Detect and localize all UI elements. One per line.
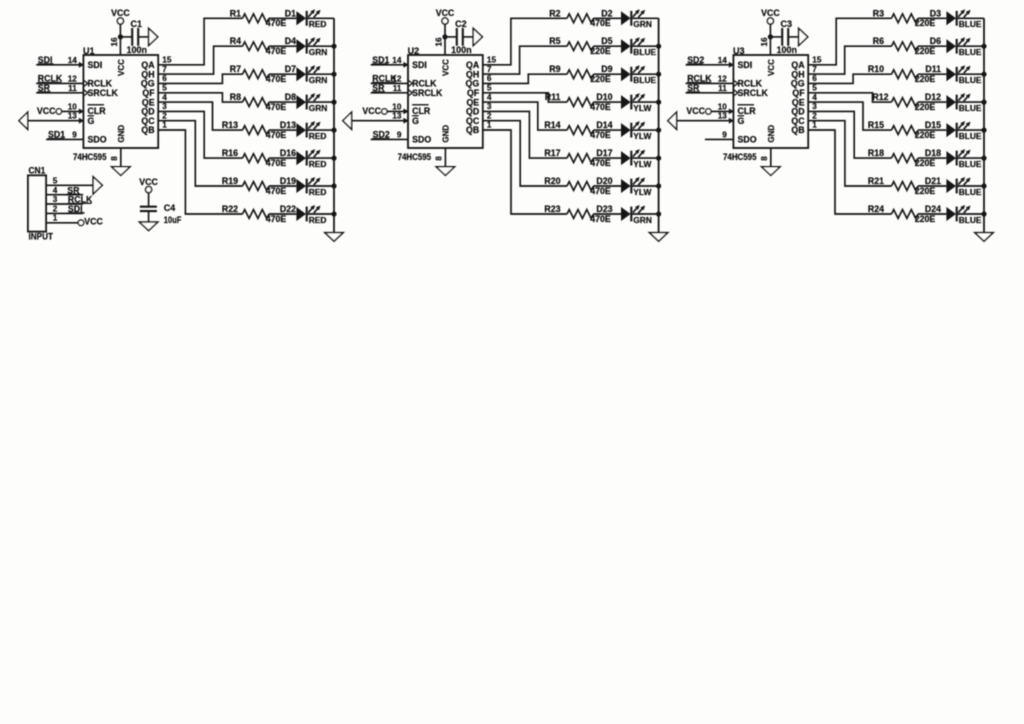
wire R2 to D2: [594, 17, 622, 19]
svg-text:100n: 100n: [451, 45, 472, 55]
wire D9 cathode to GND bus: [631, 73, 658, 75]
svg-text:470E: 470E: [266, 186, 287, 196]
svg-text:D1: D1: [285, 8, 296, 18]
wire R17 to D17: [594, 157, 622, 159]
wire R21 to D21: [918, 185, 946, 187]
svg-text:470E: 470E: [266, 214, 287, 224]
junction on GND bus: [981, 100, 986, 105]
wire RCLK to U1 pin 12: [36, 82, 83, 84]
svg-text:INPUT: INPUT: [29, 232, 54, 242]
wire R20 to D20: [594, 185, 622, 187]
svg-text:R20: R20: [544, 176, 560, 186]
svg-text:C1: C1: [131, 19, 143, 29]
resistor R16 470E: [222, 148, 287, 168]
svg-text:1: 1: [53, 214, 58, 223]
svg-text:220E: 220E: [915, 158, 936, 168]
svg-text:R19: R19: [222, 176, 238, 186]
wire R11 to D10: [594, 101, 622, 103]
wire U2 pin QG to R9: [483, 74, 567, 83]
wire D18 cathode to GND bus: [957, 157, 984, 159]
wire R5 to D5: [594, 45, 622, 47]
junction on GND bus: [981, 183, 986, 188]
resistor R19 470E: [222, 176, 287, 196]
wire R16 to D16: [269, 157, 296, 159]
wire pin 8 GND of U1: [120, 148, 122, 167]
svg-text:D4: D4: [285, 36, 296, 46]
svg-text:470E: 470E: [266, 74, 287, 84]
wire U3 pin QH to R6: [808, 46, 891, 74]
wire R12 to D12: [918, 101, 946, 103]
svg-text:R12: R12: [872, 92, 888, 102]
svg-text:12: 12: [68, 74, 78, 83]
svg-text:RED: RED: [309, 215, 327, 225]
svg-text:VCC: VCC: [442, 59, 451, 76]
capacitor C2 100n: [445, 19, 473, 55]
junction on GND bus: [656, 100, 661, 105]
ground symbol at bottom of LED bus 1: [325, 233, 343, 242]
svg-text:R1: R1: [230, 8, 241, 18]
LED D7 GRN: [285, 64, 328, 85]
wire SDO pin 9 of U1: [46, 138, 83, 140]
wire D10 cathode to GND bus: [631, 101, 658, 103]
svg-text:2: 2: [53, 205, 58, 214]
wire R7 to D7: [269, 73, 296, 75]
svg-text:74HC595: 74HC595: [398, 152, 432, 162]
svg-text:GRN: GRN: [309, 103, 328, 113]
svg-text:D10: D10: [596, 92, 612, 102]
svg-text:11: 11: [393, 84, 402, 93]
svg-text:R16: R16: [222, 148, 238, 158]
net label SR (pin 11): [38, 83, 51, 93]
resistor R5 220E: [549, 36, 611, 56]
svg-text:3: 3: [162, 102, 167, 111]
svg-text:YLW: YLW: [633, 103, 651, 113]
svg-text:R2: R2: [549, 8, 560, 18]
junction on GND bus: [331, 128, 336, 133]
VCC net on CLR pin 10: [686, 106, 733, 116]
svg-text:U2: U2: [408, 46, 420, 56]
wire U3 pin QE to R15: [808, 102, 891, 130]
svg-text:D19: D19: [280, 176, 296, 186]
svg-text:SDO: SDO: [412, 135, 431, 145]
LED D10 YLW: [596, 92, 651, 113]
wire U3 pin QB to R24: [808, 130, 891, 214]
svg-text:R15: R15: [868, 120, 884, 130]
CN1 pin 1 wire to VCC: [46, 214, 103, 227]
wire U1 pin QG to R7: [158, 74, 242, 83]
ground symbol under U1: [112, 167, 130, 176]
svg-text:BLUE: BLUE: [959, 19, 982, 29]
wire R24 to D24: [918, 213, 946, 215]
wire R23 to D23: [594, 213, 622, 215]
CN1 pin 3 wire, net RCLK: [46, 195, 93, 205]
wire D2 cathode to GND bus: [631, 17, 658, 19]
resistor R20 470E: [544, 176, 611, 196]
resistor R1 470E: [230, 8, 287, 28]
LED D11 BLUE: [925, 64, 982, 85]
LED D1 RED: [285, 8, 327, 29]
LED D6 BLUE: [930, 36, 982, 57]
svg-text:9: 9: [397, 130, 402, 139]
svg-text:1: 1: [487, 121, 492, 130]
junction on GND bus: [331, 100, 336, 105]
wire U3 pin QC to R21: [808, 121, 891, 186]
svg-text:GRN: GRN: [309, 47, 328, 57]
svg-text:BLUE: BLUE: [959, 75, 982, 85]
junction VCC node: [442, 34, 447, 39]
junction on GND bus: [981, 211, 986, 216]
resistor R17 470E: [544, 148, 611, 168]
svg-text:D3: D3: [930, 8, 941, 18]
wire R8 to D8: [269, 101, 296, 103]
wire VCC to pin 16 of U3: [769, 24, 771, 55]
svg-text:R17: R17: [544, 148, 560, 158]
resistor R13 470E: [222, 120, 287, 140]
LED D24 BLUE: [925, 204, 982, 225]
LED D16 RED: [280, 148, 327, 169]
wire R1 to D1: [269, 17, 296, 19]
wire D1 cathode to GND bus: [307, 17, 334, 19]
svg-text:VCC: VCC: [37, 106, 56, 116]
svg-text:GRN: GRN: [309, 75, 328, 85]
svg-text:74HC595: 74HC595: [73, 152, 107, 162]
resistor R7 470E: [230, 64, 287, 84]
wire D16 cathode to GND bus: [307, 157, 334, 159]
wire R19 to D19: [269, 185, 296, 187]
wire D14 cathode to GND bus: [631, 129, 658, 131]
wire D22 cathode to GND bus: [307, 213, 334, 215]
wire VCC to pin 16 of U1: [119, 24, 121, 55]
wire D5 cathode to GND bus: [631, 45, 658, 47]
wire R4 to D4: [269, 45, 296, 47]
ground symbol under C4: [139, 222, 157, 231]
wire U1 pin QH to R4: [158, 46, 242, 74]
svg-text:C3: C3: [781, 19, 793, 29]
CN1 pin 2 wire, net SDI: [46, 204, 85, 214]
svg-text:15: 15: [162, 56, 172, 65]
svg-text:6: 6: [487, 74, 492, 83]
resistor R11 470E: [545, 92, 611, 112]
svg-text:470E: 470E: [266, 130, 287, 140]
svg-text:3: 3: [487, 102, 492, 111]
svg-text:BLUE: BLUE: [959, 159, 982, 169]
junction on GND bus: [656, 128, 661, 133]
svg-text:5: 5: [162, 84, 167, 93]
svg-text:QB: QB: [791, 125, 804, 135]
svg-text:YLW: YLW: [633, 131, 651, 141]
wire VCC to C4: [148, 193, 150, 207]
svg-text:BLUE: BLUE: [633, 75, 656, 85]
svg-text:VCC: VCC: [436, 8, 455, 18]
svg-text:GND: GND: [442, 125, 451, 143]
IC U1 74HC595 shift register: [68, 37, 172, 162]
wire D13 cathode to GND bus: [307, 129, 334, 131]
ground symbol at bottom of LED bus 3: [975, 233, 993, 242]
svg-text:D22: D22: [280, 204, 296, 214]
svg-text:GRN: GRN: [633, 19, 652, 29]
junction on GND bus: [656, 72, 661, 77]
svg-text:R21: R21: [868, 176, 884, 186]
wire VCC to pin 16 of U2: [444, 24, 446, 55]
svg-text:BLUE: BLUE: [959, 47, 982, 57]
svg-text:R24: R24: [868, 204, 884, 214]
svg-text:14: 14: [718, 56, 728, 65]
svg-text:R13: R13: [222, 120, 238, 130]
wire D20 cathode to GND bus: [631, 185, 658, 187]
svg-text:SRCLK: SRCLK: [412, 88, 443, 98]
svg-text:D7: D7: [285, 64, 296, 74]
junction on GND bus: [331, 183, 336, 188]
wire port to U2 pin 13: [352, 120, 408, 122]
svg-text:220E: 220E: [590, 46, 611, 56]
LED D9 BLUE: [601, 64, 656, 85]
junction on GND bus: [981, 128, 986, 133]
svg-text:CLR: CLR: [412, 106, 431, 116]
svg-text:D20: D20: [596, 176, 612, 186]
svg-text:5: 5: [53, 177, 58, 186]
LED D19 RED: [280, 176, 327, 197]
resistor R9 220E: [549, 64, 611, 84]
LED D4 GRN: [285, 36, 328, 57]
LED D23 GRN: [596, 204, 652, 225]
svg-text:13: 13: [68, 112, 78, 121]
svg-text:R18: R18: [868, 148, 884, 158]
svg-text:R3: R3: [873, 8, 884, 18]
svg-text:C4: C4: [164, 203, 176, 213]
wire R9 to D9: [594, 73, 622, 75]
svg-text:470E: 470E: [590, 102, 611, 112]
capacitor C4 10uF: [140, 203, 182, 225]
wire U3 pin QA to R3: [808, 18, 891, 65]
VCC power symbol above U3: [761, 8, 780, 24]
svg-text:8: 8: [760, 156, 769, 161]
svg-text:SDO: SDO: [738, 135, 757, 145]
svg-text:470E: 470E: [266, 18, 287, 28]
LED D8 GRN: [285, 92, 328, 113]
svg-text:D15: D15: [925, 120, 941, 130]
ground symbol under U2: [436, 167, 454, 176]
svg-text:220E: 220E: [915, 74, 936, 84]
svg-text:16: 16: [110, 37, 119, 47]
svg-text:D8: D8: [285, 92, 296, 102]
wire R13 to D13: [269, 129, 296, 131]
svg-text:2: 2: [487, 111, 492, 120]
svg-text:D9: D9: [601, 64, 612, 74]
port arrow (G enable, pin 13): [668, 112, 677, 129]
svg-text:4: 4: [53, 186, 58, 195]
svg-text:BLUE: BLUE: [959, 215, 982, 225]
svg-text:11: 11: [718, 84, 727, 93]
junction on GND bus: [331, 211, 336, 216]
wire port to U1 pin 13: [28, 120, 84, 122]
wire SDO pin 9 of U2: [371, 138, 408, 140]
svg-text:1: 1: [812, 121, 817, 130]
wire pin 8 GND of U3: [770, 148, 772, 167]
svg-text:R23: R23: [544, 204, 560, 214]
wire D6 cathode to GND bus: [957, 45, 984, 47]
svg-text:U1: U1: [83, 46, 95, 56]
junction VCC node: [118, 34, 123, 39]
junction on GND bus: [656, 156, 661, 161]
wire RCLK to U3 pin 12: [686, 82, 734, 84]
svg-text:VCC: VCC: [84, 216, 103, 226]
svg-text:6: 6: [812, 74, 817, 83]
net label SR (pin 11): [372, 83, 385, 93]
svg-text:CLR: CLR: [738, 106, 757, 116]
svg-text:R8: R8: [230, 92, 241, 102]
resistor R12 220E: [872, 92, 935, 112]
svg-text:14: 14: [392, 56, 402, 65]
svg-text:G: G: [88, 116, 95, 126]
wire U1 pin QD to R16: [158, 111, 242, 158]
port arrow on CN1 pin 5: [93, 177, 102, 194]
svg-text:D16: D16: [280, 148, 296, 158]
resistor R2 470E: [549, 8, 611, 28]
svg-text:D5: D5: [601, 36, 612, 46]
wire D15 cathode to GND bus: [957, 129, 984, 131]
net label SD1 (pin 14 input): [372, 55, 390, 65]
svg-text:15: 15: [487, 56, 497, 65]
VCC net on CLR pin 10: [362, 106, 408, 116]
svg-text:9: 9: [72, 130, 77, 139]
LED D5 BLUE: [601, 36, 656, 57]
svg-text:220E: 220E: [915, 130, 936, 140]
svg-text:1: 1: [162, 121, 167, 130]
VCC net on CLR pin 10: [37, 106, 83, 116]
wire D19 cathode to GND bus: [307, 185, 334, 187]
svg-text:SDI: SDI: [88, 60, 103, 70]
wire U1 pin QA to R1: [158, 18, 242, 65]
svg-text:QB: QB: [141, 125, 154, 135]
svg-text:8: 8: [110, 156, 119, 161]
svg-text:SDO: SDO: [88, 135, 107, 145]
svg-text:7: 7: [162, 65, 167, 74]
svg-text:470E: 470E: [590, 214, 611, 224]
svg-text:220E: 220E: [915, 186, 936, 196]
wire D21 cathode to GND bus: [957, 185, 984, 187]
net label RCLK (pin 12): [38, 74, 63, 84]
LED D21 BLUE: [925, 176, 982, 197]
svg-text:220E: 220E: [915, 18, 936, 28]
port arrow right of C2: [473, 28, 482, 45]
svg-text:470E: 470E: [590, 130, 611, 140]
svg-text:12: 12: [718, 74, 728, 83]
wire U2 pin QA to R2: [483, 18, 567, 65]
svg-text:GRN: GRN: [633, 215, 652, 225]
wire R18 to D18: [918, 157, 946, 159]
wire U2 pin QC to R20: [483, 121, 567, 186]
svg-text:14: 14: [68, 56, 78, 65]
svg-text:D18: D18: [925, 148, 941, 158]
svg-text:R10: R10: [868, 64, 884, 74]
ground symbol at bottom of LED bus 2: [649, 233, 667, 242]
svg-text:220E: 220E: [915, 214, 936, 224]
capacitor C1 100n: [120, 19, 148, 55]
svg-text:220E: 220E: [915, 102, 936, 112]
wire U1 pin QE to R13: [158, 102, 242, 130]
svg-text:BLUE: BLUE: [959, 103, 982, 113]
LED D20 YLW: [596, 176, 651, 197]
wire D24 cathode to GND bus: [957, 213, 984, 215]
svg-text:CN1: CN1: [29, 166, 46, 176]
GND bus wire block 2: [658, 18, 660, 232]
svg-text:13: 13: [718, 112, 728, 121]
junction on GND bus: [331, 156, 336, 161]
resistor R3 220E: [873, 8, 936, 28]
svg-text:SDI: SDI: [412, 60, 427, 70]
svg-text:10: 10: [392, 102, 402, 111]
svg-text:5: 5: [812, 84, 817, 93]
svg-text:C2: C2: [455, 19, 467, 29]
port arrow (G enable, pin 13): [343, 112, 352, 129]
wire D7 cathode to GND bus: [307, 73, 334, 75]
wire R6 to D6: [918, 45, 946, 47]
svg-text:D24: D24: [925, 204, 941, 214]
svg-text:2: 2: [162, 111, 167, 120]
svg-text:2: 2: [812, 111, 817, 120]
net label SD1 (SDO pin 9): [48, 130, 66, 140]
resistor R4 470E: [230, 36, 287, 56]
wire U2 pin QD to R17: [483, 111, 567, 158]
wire D12 cathode to GND bus: [957, 101, 984, 103]
svg-text:4: 4: [812, 93, 817, 102]
wire SD1 to U2 pin 14: [371, 64, 408, 66]
junction on GND bus: [656, 44, 661, 49]
LED D2 GRN: [601, 8, 652, 29]
svg-text:VCC: VCC: [767, 59, 776, 76]
wire D8 cathode to GND bus: [307, 101, 334, 103]
svg-text:RED: RED: [309, 19, 327, 29]
svg-text:R5: R5: [549, 36, 560, 46]
wire U1 pin QB to R22: [158, 130, 242, 214]
wire U1 pin QF to R8: [158, 93, 242, 102]
IC U3 74HC595 shift register: [718, 37, 822, 162]
svg-text:4: 4: [162, 93, 167, 102]
VCC power symbol above U2: [436, 8, 455, 24]
wire R14 to D14: [594, 129, 622, 131]
net label RCLK (pin 12): [687, 74, 712, 84]
port arrow right of C3: [799, 28, 808, 45]
wire SD2 to U3 pin 14: [686, 64, 734, 66]
svg-text:BLUE: BLUE: [959, 187, 982, 197]
svg-text:7: 7: [487, 65, 492, 74]
resistor R6 220E: [873, 36, 936, 56]
junction on GND bus: [981, 72, 986, 77]
svg-text:BLUE: BLUE: [633, 47, 656, 57]
wire C4 to ground: [148, 211, 150, 222]
junction on GND bus: [331, 72, 336, 77]
svg-text:QB: QB: [466, 125, 479, 135]
resistor R8 470E: [230, 92, 287, 112]
svg-text:D23: D23: [596, 204, 612, 214]
IC U2 74HC595 shift register: [392, 37, 496, 162]
resistor R14 470E: [544, 120, 611, 140]
svg-text:VCC: VCC: [761, 8, 780, 18]
svg-text:D12: D12: [925, 92, 941, 102]
svg-text:220E: 220E: [590, 74, 611, 84]
VCC power symbol above U1: [111, 8, 130, 24]
svg-text:10uF: 10uF: [164, 215, 182, 225]
svg-text:CLR: CLR: [88, 106, 107, 116]
svg-text:RED: RED: [309, 187, 327, 197]
svg-text:3: 3: [53, 195, 58, 204]
net label SR (pin 11): [687, 83, 700, 93]
svg-text:4: 4: [487, 93, 492, 102]
net label SD2 (pin 14 input): [687, 55, 705, 65]
svg-text:G: G: [738, 116, 745, 126]
junction VCC node: [768, 34, 773, 39]
net label RCLK (pin 12): [372, 74, 397, 84]
